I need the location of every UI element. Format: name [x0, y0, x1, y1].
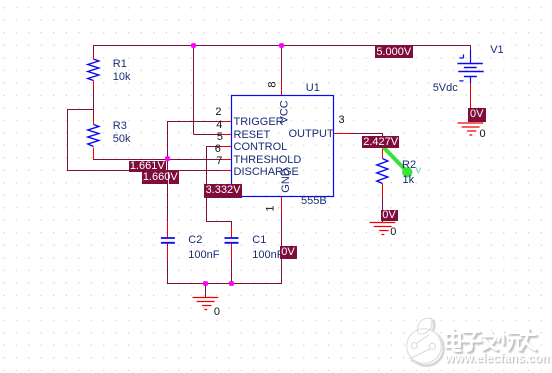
svg-text:V: V	[416, 166, 422, 176]
